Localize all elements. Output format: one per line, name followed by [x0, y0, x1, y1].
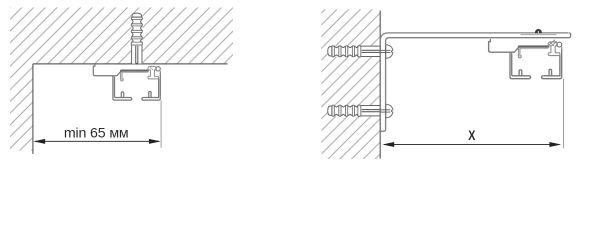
ceiling + wall hatched masonry	[10, 8, 233, 151]
anchor dowel in ceiling	[131, 13, 142, 64]
dimension line min 65 mm	[35, 140, 159, 142]
screw dome on arm	[535, 29, 542, 33]
rail + clamp assembly (left)	[93, 64, 160, 100]
bracket inner corner + arm bottom line	[386, 38, 569, 41]
rail + clamp assembly (right, scaled 1.09)	[489, 40, 562, 79]
lower screw pan head on plate	[381, 104, 393, 118]
arrowhead left	[382, 142, 394, 147]
svg-text:min 65 мм: min 65 мм	[64, 126, 129, 142]
svg-text:X: X	[468, 128, 476, 144]
extension line (right)	[563, 79, 565, 149]
wall face line	[32, 64, 34, 154]
lower anchor dowel	[328, 105, 381, 116]
ceiling underside line	[33, 63, 228, 65]
wall face line	[379, 11, 381, 159]
extension line (left)	[160, 101, 162, 148]
arrowhead right	[149, 139, 161, 144]
bracket vertical plate right edge	[380, 41, 385, 131]
arrowhead right	[549, 142, 561, 147]
bracket outer corner + arm top line	[380, 33, 568, 41]
wall hatched masonry	[321, 9, 380, 159]
upper screw pan head on plate	[381, 45, 393, 59]
clamp upper lip line under arm	[521, 34, 557, 36]
latch lever tilt detail lines (right latch head)	[549, 40, 556, 46]
arrowhead left	[33, 139, 45, 144]
upper anchor dowel	[328, 46, 381, 57]
arm right end cap	[569, 33, 571, 38]
screw tip below ceiling	[136, 63, 138, 65]
dimension line x	[384, 144, 560, 146]
